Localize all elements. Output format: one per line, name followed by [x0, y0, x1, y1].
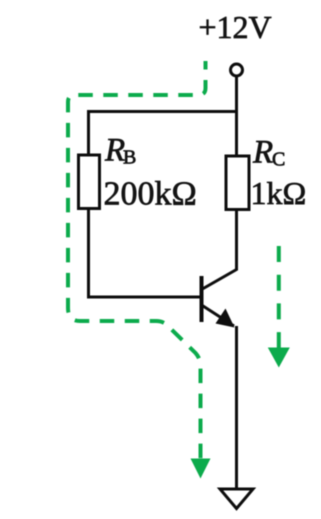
- transistor Q1 emitter stroke: [202, 305, 235, 326]
- ground: [220, 489, 253, 509]
- svg-text:1kΩ: 1kΩ: [251, 175, 307, 211]
- transistor Q1 emitter arrowhead: [216, 309, 235, 328]
- wire base horizontal: [87, 296, 201, 299]
- wire left rail upper: [87, 110, 90, 156]
- svg-text:C: C: [272, 149, 285, 171]
- transistor Q1 base bar: [200, 276, 204, 322]
- resistor RC: [226, 156, 249, 210]
- wire left rail lower: [87, 208, 90, 299]
- svg-text:+12V: +12V: [199, 9, 272, 45]
- wire collector vertical: [235, 209, 238, 271]
- svg-text:B: B: [123, 147, 136, 169]
- wire emitter vertical: [235, 326, 238, 489]
- wire right rail upper: [235, 112, 238, 158]
- green arrowhead base-path: [191, 459, 211, 479]
- wire top horizontal: [87, 110, 237, 113]
- svg-text:R: R: [104, 133, 125, 169]
- green dashed arrow: collector current: [277, 246, 281, 352]
- transistor Q1 collector stroke: [202, 270, 237, 290]
- green dashed loop: base current path: [68, 61, 206, 462]
- resistor RB: [79, 155, 100, 209]
- wire terminal to top rail: [235, 76, 238, 113]
- green arrowhead collector-path: [268, 348, 290, 368]
- svg-text:R: R: [252, 135, 273, 171]
- supply terminal circle: [231, 64, 243, 76]
- svg-text:200kΩ: 200kΩ: [104, 176, 197, 213]
